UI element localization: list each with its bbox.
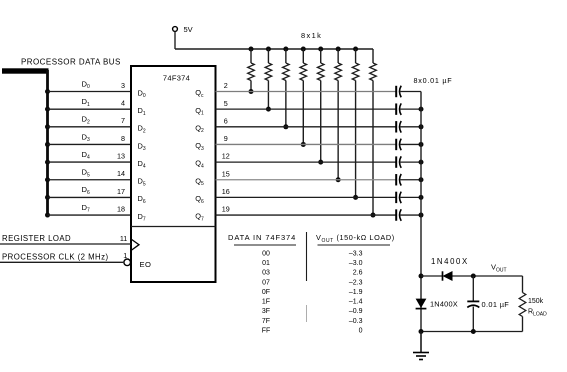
svg-text:13: 13 <box>117 152 125 161</box>
svg-text:2: 2 <box>224 81 228 90</box>
svg-text:01: 01 <box>262 260 270 267</box>
svg-text:0F: 0F <box>262 289 270 296</box>
svg-text:0.01 µF: 0.01 µF <box>482 300 510 309</box>
svg-text:15: 15 <box>222 169 230 178</box>
svg-text:–0.3: –0.3 <box>349 318 363 325</box>
svg-text:00: 00 <box>262 250 270 257</box>
svg-text:9: 9 <box>224 134 228 143</box>
svg-text:12: 12 <box>222 152 230 161</box>
svg-text:–3.3: –3.3 <box>349 250 363 257</box>
svg-text:DATA IN 74F374: DATA IN 74F374 <box>228 233 296 242</box>
svg-text:7: 7 <box>121 116 125 125</box>
svg-text:07: 07 <box>262 279 270 286</box>
svg-text:–1.9: –1.9 <box>349 289 363 296</box>
svg-text:03: 03 <box>262 270 270 277</box>
svg-text:–0.9: –0.9 <box>349 308 363 315</box>
svg-text:74F374: 74F374 <box>163 73 190 82</box>
svg-text:7F: 7F <box>262 318 270 325</box>
svg-text:–1.4: –1.4 <box>349 299 363 306</box>
svg-text:18: 18 <box>117 204 125 213</box>
svg-text:14: 14 <box>117 169 125 178</box>
svg-text:150k: 150k <box>528 298 544 305</box>
svg-text:1N400X: 1N400X <box>430 300 458 309</box>
svg-text:3: 3 <box>121 81 125 90</box>
svg-text:4: 4 <box>121 99 125 108</box>
svg-text:8x0.01 µF: 8x0.01 µF <box>414 76 453 85</box>
svg-text:5: 5 <box>224 99 228 108</box>
svg-text:FF: FF <box>262 328 271 335</box>
svg-text:PROCESSOR DATA BUS: PROCESSOR DATA BUS <box>21 58 121 67</box>
svg-text:5V: 5V <box>184 25 193 34</box>
svg-text:0: 0 <box>359 328 363 335</box>
svg-text:16: 16 <box>222 187 230 196</box>
svg-text:1F: 1F <box>262 299 270 306</box>
svg-text:11: 11 <box>120 234 127 243</box>
svg-text:EO: EO <box>140 260 152 269</box>
svg-text:2.6: 2.6 <box>353 270 363 277</box>
svg-text:19: 19 <box>222 205 230 214</box>
svg-text:3F: 3F <box>262 308 270 315</box>
svg-text:–3.0: –3.0 <box>349 260 363 267</box>
svg-text:REGISTER LOAD: REGISTER LOAD <box>2 234 71 243</box>
svg-text:8x1k: 8x1k <box>301 31 322 40</box>
svg-text:–2.3: –2.3 <box>349 279 363 286</box>
svg-text:PROCESSOR CLK (2 MHz): PROCESSOR CLK (2 MHz) <box>2 252 109 261</box>
svg-text:8: 8 <box>121 134 125 143</box>
svg-text:6: 6 <box>224 116 228 125</box>
svg-text:1N400X: 1N400X <box>431 257 469 266</box>
svg-text:17: 17 <box>117 187 125 196</box>
